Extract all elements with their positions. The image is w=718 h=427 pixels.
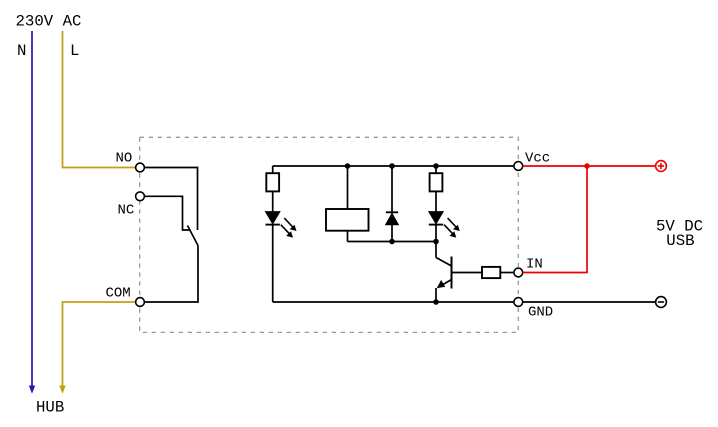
svg-text:GND: GND: [528, 305, 553, 321]
junction node +5V (red): [584, 163, 590, 169]
switch blade (resting on NC): [188, 226, 199, 246]
terminal IN: [514, 268, 523, 277]
junction node R2/Vcc: [433, 163, 439, 169]
transistor Q1: [436, 242, 452, 303]
terminal +5V USB: [656, 161, 667, 172]
resistor R2: [430, 166, 443, 212]
svg-text:N: N: [17, 42, 26, 60]
junction node coil/Vcc: [345, 163, 351, 169]
terminal Vcc: [514, 162, 523, 171]
resistor R3 (base): [452, 267, 514, 278]
LED D1 light arrows: [281, 218, 297, 238]
arrowhead COM to HUB: [59, 386, 65, 394]
wire coil to collector node: [348, 241, 437, 243]
arrowhead N to HUB: [29, 386, 35, 394]
svg-text:USB: USB: [666, 232, 694, 250]
wire NO to switch fixed contact: [144, 168, 197, 231]
terminal minus USB: [656, 297, 667, 308]
resistor R1: [266, 166, 279, 212]
top rail Vcc: [273, 165, 514, 167]
wire Vcc to +5V (red): [523, 165, 656, 167]
diode D2 flyback: [386, 166, 399, 242]
terminal NO: [136, 163, 145, 172]
terminal NC: [136, 192, 145, 201]
svg-text:HUB: HUB: [36, 399, 64, 417]
LED D3 light arrows: [444, 218, 460, 238]
svg-text:COM: COM: [106, 286, 131, 302]
svg-text:L: L: [70, 42, 79, 60]
relay module outline (dashed): [140, 137, 519, 332]
wire D1 cathode to GND rail: [272, 225, 274, 302]
junction node collector: [433, 239, 439, 245]
LED D1: [266, 212, 280, 225]
wire D3 to collector node: [435, 225, 437, 242]
wire N (neutral, blue): [31, 31, 33, 387]
svg-text:NO: NO: [116, 151, 133, 167]
svg-text:NC: NC: [118, 203, 135, 219]
svg-text:230V AC: 230V AC: [16, 13, 82, 31]
bottom rail GND: [273, 301, 514, 303]
wire NC to switch fixed contact: [144, 196, 190, 230]
junction node diode anode: [389, 239, 395, 245]
terminal GND: [514, 298, 523, 307]
wire switch pole to COM: [144, 246, 198, 303]
relay coil K1: [326, 166, 369, 242]
wire GND to USB minus: [523, 301, 656, 303]
junction node diode/Vcc: [389, 163, 395, 169]
LED D3: [429, 212, 443, 225]
svg-text:IN: IN: [526, 257, 543, 273]
svg-text:Vcc: Vcc: [525, 151, 550, 167]
wire +5V to IN (red): [523, 166, 587, 273]
terminal COM: [136, 298, 145, 307]
wire L (live, olive): [63, 31, 136, 168]
junction node emitter/GND: [433, 299, 439, 305]
wire COM to HUB (olive): [63, 302, 136, 387]
